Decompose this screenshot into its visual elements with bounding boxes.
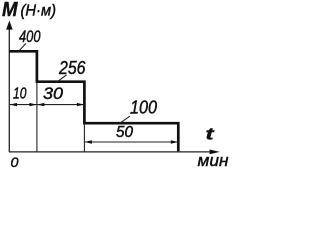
dimension line 50 (84, 141, 178, 143)
torque step curve (400/256/100 levels) (9, 51, 178, 151)
svg-text:100: 100 (130, 98, 157, 118)
t axis (horizontal) (9, 151, 212, 153)
svg-text:(Н·м): (Н·м) (21, 3, 57, 20)
t axis arrowhead (210, 150, 220, 155)
svg-text:400: 400 (19, 27, 41, 46)
svg-text:30: 30 (43, 85, 64, 103)
svg-text:10: 10 (13, 85, 27, 102)
svg-text:50: 50 (116, 124, 133, 141)
M axis (vertical) (8, 29, 10, 153)
svg-text:мuн: мuн (198, 152, 229, 170)
axis label M (N·m) (2, 0, 56, 21)
svg-text:256: 256 (58, 58, 86, 78)
dim arrow left at axis (10, 103, 17, 106)
dimension line 10/30 (10, 104, 85, 106)
M axis arrowhead (6, 21, 13, 30)
extension line at t=40 (83, 124, 85, 152)
extension line at t=10 (36, 82, 38, 152)
svg-text:0: 0 (11, 154, 19, 170)
leader for 100 (120, 116, 130, 123)
dim arrow left at t=10 (37, 103, 44, 106)
dim arrow right at t=40 (77, 103, 84, 106)
svg-text:M: M (2, 0, 19, 21)
dim arrow right at t=90 (171, 140, 178, 143)
dim arrow left at t=40 (85, 140, 92, 143)
dim arrow right at t=10 (29, 103, 36, 106)
leader for 400 (20, 43, 26, 50)
leader for 256 (56, 75, 67, 83)
